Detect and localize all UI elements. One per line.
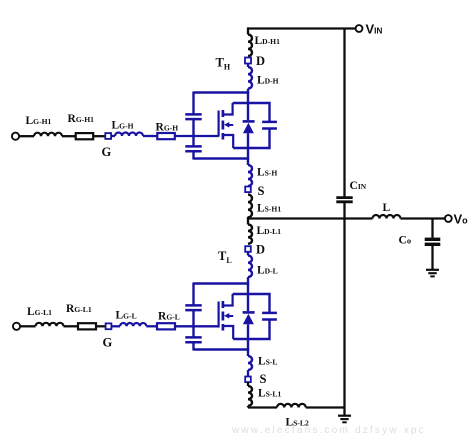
svg-text:TH: TH — [216, 56, 231, 72]
wire bottom rail — [247, 406, 249, 408]
wire drain vertical — [247, 283, 249, 312]
capacitor CIN — [336, 196, 352, 199]
capacitor Co — [425, 238, 441, 241]
wire — [93, 135, 105, 137]
terminal gate L — [13, 323, 20, 330]
svg-text:LD-L1: LD-L1 — [257, 225, 282, 237]
TH source lead — [223, 135, 233, 148]
wire — [306, 406, 345, 408]
svg-text:LS-L1: LS-L1 — [258, 388, 281, 400]
svg-text:RG-H1: RG-H1 — [68, 113, 95, 125]
wire — [20, 325, 36, 327]
svg-text:LS-H1: LS-H1 — [257, 203, 281, 215]
wire — [64, 325, 79, 327]
wire — [247, 63, 249, 67]
wire — [143, 135, 157, 137]
resistor RG-L — [157, 323, 175, 329]
resistor RG-H — [157, 133, 175, 139]
ground (Co) — [426, 269, 439, 271]
wire — [146, 325, 157, 327]
TL outer bottom wire — [194, 348, 250, 351]
wire — [247, 217, 249, 220]
inductor LD-L — [248, 256, 252, 278]
capacitor Cgs TH — [185, 145, 201, 148]
inductor LG-L1 — [36, 323, 64, 327]
terminal Vo — [445, 215, 452, 222]
TH outer top wire — [194, 91, 249, 94]
svg-text:CIN: CIN — [350, 180, 367, 192]
inductor LS-H1 — [248, 195, 252, 218]
svg-text:G: G — [102, 145, 112, 159]
wire Co branch — [431, 219, 433, 238]
svg-text:LG-H: LG-H — [112, 120, 134, 132]
inductor L — [373, 215, 401, 219]
diode DTH body — [243, 123, 254, 134]
diode DTL body — [243, 314, 254, 325]
wire — [247, 185, 249, 188]
svg-text:D: D — [256, 243, 265, 257]
wire — [192, 120, 194, 147]
node G (TL gate) — [106, 323, 112, 329]
svg-text:G: G — [103, 336, 113, 350]
node G (TH gate) — [105, 133, 111, 139]
svg-text:LG-L1: LG-L1 — [27, 306, 52, 318]
svg-text:D: D — [256, 54, 265, 68]
diode DTH cathode bar — [243, 120, 255, 123]
wire — [247, 89, 249, 94]
wire — [247, 252, 249, 256]
inductor LD-H — [248, 67, 252, 89]
transistor TL gate bar — [218, 302, 220, 328]
wire — [192, 311, 194, 338]
TL inner box — [233, 294, 270, 313]
node D (TL drain) — [245, 246, 251, 252]
wire mid rail — [248, 217, 373, 219]
wire — [96, 325, 106, 327]
wire CIN branch — [343, 29, 345, 197]
svg-text:LD-L: LD-L — [257, 265, 278, 277]
wire — [111, 325, 120, 327]
capacitor Cds TH — [262, 121, 277, 124]
wire drain vertical — [247, 92, 249, 121]
wire gate H — [175, 135, 219, 137]
TL channel segments — [222, 301, 225, 308]
wire — [247, 370, 249, 376]
svg-text:LG-H1: LG-H1 — [26, 115, 52, 127]
TH outer bottom wire — [194, 157, 250, 160]
TL source lead — [223, 326, 233, 339]
capacitor Cgs TL — [185, 336, 201, 339]
svg-text:S: S — [258, 184, 265, 198]
wire — [247, 277, 249, 285]
svg-text:www.elecfans.com dzfsyw xpc: www.elecfans.com dzfsyw xpc — [231, 425, 426, 436]
wire — [111, 135, 115, 137]
node D (TH drain) — [245, 58, 251, 64]
inductor LG-H1 — [34, 133, 62, 136]
svg-text:TL: TL — [218, 249, 232, 265]
svg-text:LD-H: LD-H — [257, 75, 279, 87]
inductor LG-L — [120, 323, 146, 326]
TH body arrow — [224, 122, 229, 128]
svg-text:Vo: Vo — [454, 212, 469, 227]
terminal VIN — [356, 25, 363, 32]
svg-text:RG-H: RG-H — [156, 122, 179, 134]
node S (TL source) — [245, 377, 251, 383]
wire — [343, 203, 345, 408]
wire — [247, 349, 249, 357]
svg-text:L: L — [383, 202, 391, 214]
inductor LS-L1 — [247, 382, 249, 386]
svg-text:RG-L1: RG-L1 — [66, 303, 92, 315]
TH inner box — [233, 103, 270, 122]
inductor LG-H — [115, 133, 143, 137]
svg-text:RG-L: RG-L — [158, 311, 180, 323]
inductor LD-H1 — [248, 35, 252, 57]
svg-text:VIN: VIN — [366, 22, 383, 37]
wire top rail — [248, 27, 357, 29]
inductor LS-H — [248, 165, 252, 186]
TH channel segments — [222, 110, 225, 117]
TL body arrow — [224, 313, 229, 319]
resistor RG-L1 — [78, 323, 96, 329]
resistor RG-H1 — [76, 133, 94, 139]
TL outer top wire — [194, 282, 249, 285]
wire source vertical — [247, 133, 249, 159]
transistor TH gate bar — [218, 111, 220, 137]
capacitor Cgd TL — [192, 283, 194, 306]
TH drain lead — [223, 103, 233, 115]
svg-text:LS-L: LS-L — [258, 356, 278, 368]
inductor LD-L1 — [247, 219, 249, 225]
capacitor Cgd TH — [192, 92, 194, 115]
svg-text:LG-L: LG-L — [116, 310, 137, 322]
TL drain lead — [223, 294, 233, 306]
wire — [431, 246, 433, 269]
capacitor Cds TL — [262, 312, 277, 315]
wire — [62, 135, 76, 137]
svg-text:Co: Co — [399, 235, 412, 247]
diode DTL cathode bar — [243, 311, 255, 314]
inductor LS-L — [248, 356, 252, 370]
ground (input rail) — [343, 408, 345, 416]
wire — [247, 158, 249, 166]
svg-text:S: S — [260, 372, 267, 386]
svg-text:LS-H: LS-H — [257, 167, 277, 179]
wire source vertical — [247, 324, 249, 350]
wire — [401, 217, 446, 219]
inductor LS-L2 — [277, 404, 306, 408]
wire gate L — [175, 325, 219, 327]
node S (TH source) — [245, 187, 251, 193]
terminal gate H — [12, 133, 19, 140]
svg-text:LD-H1: LD-H1 — [255, 35, 281, 47]
wire — [19, 135, 34, 137]
